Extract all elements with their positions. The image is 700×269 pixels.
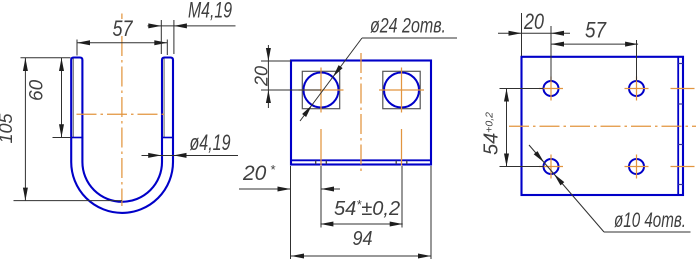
svg-text:57: 57 (113, 16, 134, 41)
svg-text:94: 94 (353, 228, 373, 250)
svg-text:20: 20 (523, 9, 544, 34)
svg-text:105: 105 (0, 112, 16, 143)
svg-text:ø4,19: ø4,19 (190, 130, 231, 155)
svg-text:ø24 2отв.: ø24 2отв. (370, 15, 446, 38)
svg-text:M4,19: M4,19 (188, 0, 232, 23)
svg-text:ø10 4отв.: ø10 4отв. (614, 209, 686, 232)
svg-text:20: 20 (252, 66, 272, 87)
svg-text:54*±0,2: 54*±0,2 (334, 197, 400, 220)
svg-text:60: 60 (27, 79, 48, 101)
svg-text:57: 57 (585, 18, 607, 43)
